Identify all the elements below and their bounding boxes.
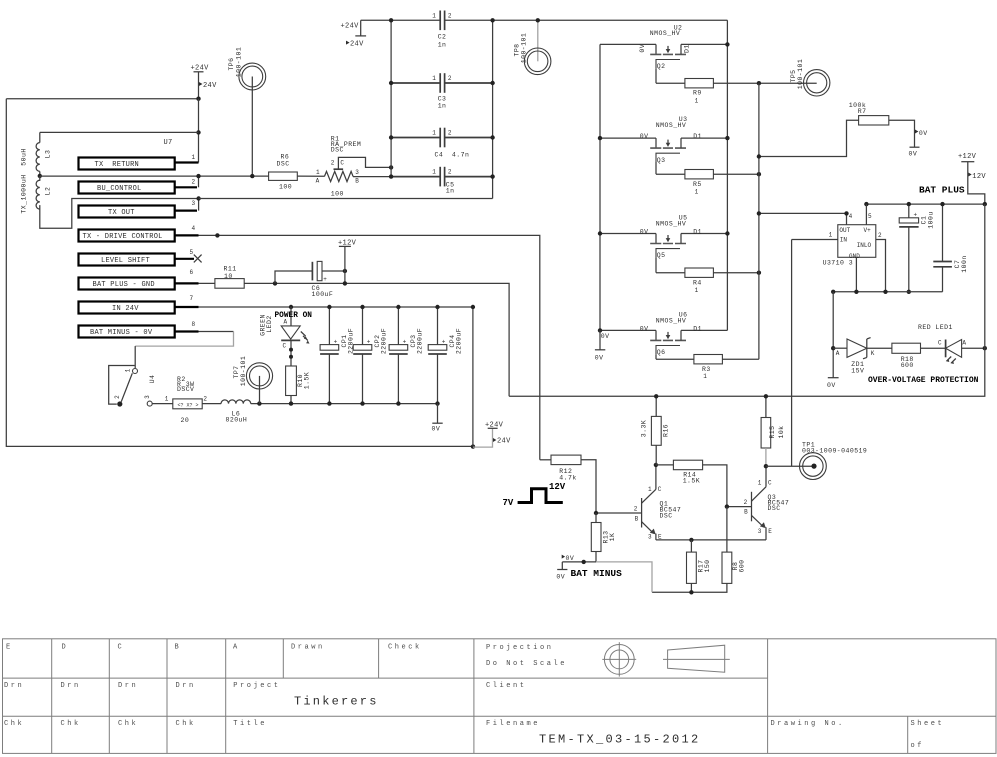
resistor R1 RA_PREM potentiometer: [316, 136, 392, 198]
svg-text:3: 3: [144, 395, 151, 399]
wire R9 output to TP5: [713, 82, 816, 84]
capacitor C5 1n: [391, 167, 493, 195]
svg-text:D1: D1: [693, 133, 702, 140]
svg-text:0V: 0V: [639, 44, 646, 53]
title block Chk row: [4, 720, 267, 728]
svg-text:2: 2: [744, 499, 748, 506]
svg-text:C7: C7: [954, 260, 961, 269]
testpoint TP1: [800, 442, 868, 480]
svg-text:A: A: [962, 340, 966, 347]
svg-text:R5: R5: [693, 181, 702, 188]
connector U7 pin box TX RETURN: [79, 154, 199, 169]
svg-text:10k: 10k: [778, 425, 785, 438]
transistor U5 NMOS_HV: [600, 215, 727, 273]
inductor L2 TX_1000uH: [21, 174, 52, 213]
svg-text:R15: R15: [769, 425, 776, 438]
svg-text:E: E: [6, 644, 13, 652]
node junction TX OUT pin3: [196, 196, 200, 200]
wire net +24V horizontal to left rail: [6, 98, 198, 100]
resistor R10 1.5K: [286, 366, 311, 404]
wire C6 left branch: [275, 271, 312, 283]
wire regulator IN pin1: [792, 239, 838, 241]
capacitor CP1 2200uF: [320, 307, 354, 404]
title block projection cell: [486, 644, 567, 728]
node junction bottom +24V return: [471, 444, 475, 448]
resistor R18 600: [892, 343, 921, 369]
capacitor C1 100u: [899, 204, 934, 292]
svg-text:OVER-VOLTAGE PROTECTION: OVER-VOLTAGE PROTECTION: [868, 376, 979, 385]
svg-text:6: 6: [190, 269, 194, 276]
svg-text:D1: D1: [693, 228, 702, 235]
wire regulator INLO pin2: [876, 240, 886, 292]
svg-text:Q3: Q3: [657, 157, 666, 164]
resistor R3 1: [694, 355, 723, 380]
capacitor CP3 2200uF: [389, 307, 423, 404]
capacitor C7 100n: [933, 204, 968, 292]
wire CP bank right rail down to +24V return: [472, 307, 474, 447]
svg-text:1: 1: [432, 130, 436, 137]
svg-text:100-101: 100-101: [521, 33, 528, 63]
svg-text:TX RETURN: TX RETURN: [95, 161, 140, 169]
resistor R11 10: [215, 265, 244, 288]
node junction pin5: [864, 202, 868, 206]
svg-text:24V: 24V: [203, 82, 217, 90]
svg-text:BAT MINUS - 0V: BAT MINUS - 0V: [90, 329, 153, 337]
svg-text:BAT PLUS: BAT PLUS: [919, 185, 965, 196]
svg-text:Filename: Filename: [486, 720, 540, 728]
node junction Q3 collector TP1: [764, 464, 768, 468]
wire switch to R2: [152, 403, 173, 405]
svg-text:Client: Client: [486, 682, 527, 690]
wire L6 to filter rail: [251, 403, 438, 405]
capacitor CP4 2200uF: [428, 307, 462, 404]
inductor L6 820uH: [221, 400, 251, 423]
wire C6 right to +12V: [322, 270, 345, 272]
svg-text:003-1009-040519: 003-1009-040519: [802, 448, 867, 455]
node junction L3 top: [196, 130, 200, 134]
wire TX DRIVE CONTROL net: [199, 235, 540, 459]
svg-text:DSC: DSC: [277, 160, 290, 167]
ground 0V at R7: [909, 130, 928, 158]
svg-text:A: A: [836, 350, 840, 357]
node junction U6 gate 0V: [598, 328, 602, 332]
resistor R7 100k: [849, 102, 889, 125]
svg-text:C2: C2: [438, 33, 447, 40]
svg-text:+: +: [403, 338, 407, 345]
node junction ZD1 anode: [831, 346, 835, 350]
svg-text:Drn: Drn: [118, 682, 138, 690]
svg-text:B: B: [635, 515, 639, 522]
svg-text:1: 1: [829, 232, 833, 239]
svg-text:R16: R16: [662, 424, 669, 437]
ground 0V under ZD1: [827, 378, 839, 389]
svg-text:1n: 1n: [446, 188, 455, 195]
svg-text:2: 2: [331, 160, 335, 167]
power +24V bottom symbol: [485, 421, 511, 445]
wire regulator GND pin3: [855, 257, 857, 292]
wire TP1 net: [766, 465, 814, 467]
svg-text:12V: 12V: [549, 482, 566, 492]
svg-text:Project: Project: [233, 682, 280, 690]
svg-text:NMOS_HV: NMOS_HV: [656, 220, 686, 227]
svg-text:2: 2: [203, 395, 207, 402]
svg-text:0V: 0V: [909, 151, 918, 158]
svg-text:C: C: [340, 160, 344, 167]
svg-text:Chk: Chk: [176, 720, 196, 728]
svg-text:Tinkerers: Tinkerers: [294, 695, 379, 709]
wire ground bus down to ZD1: [832, 292, 834, 378]
svg-text:A: A: [284, 319, 288, 326]
node junction BAT PLUS right end: [983, 202, 987, 206]
svg-text:C: C: [118, 644, 125, 652]
svg-text:DSC: DSC: [331, 147, 344, 154]
svg-text:B: B: [355, 178, 359, 185]
wire BAT MINUS net: [562, 561, 596, 563]
svg-text:D1: D1: [693, 325, 702, 332]
node junction C6 left: [273, 281, 277, 285]
wire bottom emitter ground row: [652, 583, 727, 592]
wire top rail +24V to drain bus: [361, 19, 441, 21]
title block frame: [3, 639, 997, 754]
wire R2 to L6: [202, 403, 221, 405]
diode LED2 GREEN power-on: [260, 307, 313, 366]
svg-text:TX OUT: TX OUT: [108, 209, 135, 217]
switch U4: [109, 366, 156, 407]
svg-text:0V: 0V: [556, 574, 565, 581]
svg-text:NMOS_HV: NMOS_HV: [656, 122, 686, 129]
node junction pin4 branch: [757, 211, 761, 215]
wire R1 to cap ladder: [353, 176, 391, 178]
wire R4 output to rail: [713, 272, 759, 274]
node junction R10 bottom: [289, 401, 293, 405]
svg-text:0V: 0V: [827, 382, 836, 389]
symbol projection cone: [663, 645, 730, 672]
svg-text:POWER ON: POWER ON: [275, 312, 313, 320]
svg-text:4: 4: [192, 225, 196, 232]
svg-text:Q6: Q6: [657, 349, 666, 356]
node junction R16 top: [654, 394, 658, 398]
svg-text:+12V: +12V: [958, 153, 977, 161]
node junction R17 bottom: [689, 590, 693, 594]
svg-text:24V: 24V: [350, 41, 364, 49]
connector U7 pin box TX - DRIVE CONTROL: [79, 225, 199, 241]
node junction R15 top: [764, 394, 768, 398]
svg-text:TP7: TP7: [233, 365, 240, 378]
svg-text:3: 3: [355, 169, 359, 176]
wire TX OUT net to cap ladder: [199, 198, 493, 200]
capacitor ladder left rail: [390, 20, 392, 176]
svg-text:4.7k: 4.7k: [559, 474, 576, 481]
wire base branch down to R8: [726, 507, 728, 552]
svg-text:12V: 12V: [972, 173, 986, 181]
connector U7 pin box IN 24V: [79, 295, 199, 313]
testpoint TP7: [233, 356, 273, 404]
svg-text:C: C: [938, 340, 942, 347]
wire emitter row: [656, 539, 766, 541]
svg-text:NMOS_HV: NMOS_HV: [656, 317, 686, 324]
svg-text:3: 3: [192, 200, 196, 207]
node junction R7 branch: [757, 154, 761, 158]
svg-text:1: 1: [695, 188, 699, 195]
testpoint TP6: [228, 47, 266, 176]
svg-text:1n: 1n: [438, 102, 447, 109]
svg-text:LEVEL SHIFT: LEVEL SHIFT: [101, 257, 150, 265]
symbol first-angle projection circle: [602, 642, 636, 676]
svg-text:C3: C3: [438, 95, 447, 102]
wire far right rail and return: [509, 204, 985, 396]
svg-text:100u: 100u: [927, 211, 934, 228]
svg-text:3: 3: [758, 528, 762, 535]
svg-text:L3: L3: [45, 150, 52, 159]
svg-text:+: +: [323, 276, 327, 283]
svg-text:TP6: TP6: [228, 57, 235, 70]
svg-text:C4 4.7n: C4 4.7n: [435, 151, 470, 158]
svg-text:Drawing No.: Drawing No.: [771, 720, 845, 728]
node junction U3 drain: [725, 136, 729, 140]
transistor U3 NMOS_HV: [600, 116, 727, 174]
node junction +24V at x198: [196, 97, 200, 101]
svg-text:1: 1: [165, 395, 169, 402]
svg-text:1: 1: [125, 368, 132, 372]
svg-text:Drn: Drn: [4, 682, 24, 690]
node junction TP7 stem: [257, 401, 261, 405]
svg-text:U7: U7: [164, 139, 173, 147]
svg-text:Drn: Drn: [61, 682, 81, 690]
node junction Q3 base branch: [725, 504, 729, 508]
node junction C6 right bottom: [343, 281, 347, 285]
node junction U5 gate: [598, 231, 602, 235]
svg-text:0V: 0V: [432, 425, 441, 432]
svg-text:2200uF: 2200uF: [456, 328, 463, 354]
wire LED1 to right rail: [962, 347, 985, 349]
svg-text:+: +: [367, 338, 371, 345]
svg-text:TX - DRIVE CONTROL: TX - DRIVE CONTROL: [83, 233, 163, 241]
capacitor C4 4.7n: [391, 128, 493, 159]
svg-text:7V: 7V: [503, 498, 514, 508]
title block revision header texts: [6, 644, 422, 652]
svg-text:0V: 0V: [640, 325, 649, 332]
svg-text:Chk: Chk: [118, 720, 138, 728]
resistor R8 600: [722, 552, 746, 583]
svg-text:Sheet: Sheet: [911, 720, 945, 728]
svg-text:TP8: TP8: [514, 43, 521, 56]
svg-text:BAT PLUS - GND: BAT PLUS - GND: [93, 281, 155, 289]
svg-text:Do Not Scale: Do Not Scale: [486, 660, 567, 668]
svg-text:TEM-TX_03-15-2012: TEM-TX_03-15-2012: [539, 733, 701, 747]
svg-text:15V: 15V: [851, 368, 864, 375]
capacitor C6 100uF: [312, 261, 334, 298]
svg-text:LED2: LED2: [266, 315, 273, 332]
svg-text:OUT: OUT: [839, 227, 850, 234]
node junction C tap on left rail: [389, 165, 393, 169]
power +12V symbol right: [958, 153, 986, 204]
wire BU_CONTROL net row: [40, 175, 269, 177]
svg-text:2: 2: [448, 130, 452, 137]
resistor R16 3.3K: [640, 396, 669, 465]
svg-text:2: 2: [114, 395, 121, 399]
svg-text:R7: R7: [858, 108, 867, 115]
svg-text:1: 1: [695, 98, 699, 105]
node junction pin4 corner: [844, 211, 848, 215]
title block drawing no / sheet: [771, 720, 945, 750]
svg-text:0V: 0V: [601, 333, 610, 340]
svg-text:100: 100: [279, 183, 292, 190]
svg-text:V+: V+: [864, 227, 872, 234]
svg-text:2: 2: [448, 12, 452, 19]
svg-text:5: 5: [868, 213, 872, 220]
node junction U2 drain: [725, 42, 729, 46]
resistor R4 1: [685, 268, 714, 294]
svg-text:TP5: TP5: [790, 69, 797, 82]
wire left boundary rail +24V return: [6, 99, 473, 447]
svg-text:2: 2: [192, 179, 196, 186]
wire R7 to 0V: [889, 120, 915, 147]
node junction on drive net: [215, 233, 219, 237]
connector U7 pin box LEVEL SHIFT: [79, 249, 202, 265]
svg-text:1: 1: [192, 154, 196, 161]
svg-text:U4: U4: [149, 375, 156, 384]
svg-text:8: 8: [192, 321, 196, 328]
resistor R5 1: [685, 170, 714, 196]
node junction right rail top: [757, 81, 761, 85]
node junction U5 drain: [725, 231, 729, 235]
svg-text:3: 3: [648, 534, 652, 541]
connector U7 pin box BU_CONTROL: [79, 176, 199, 193]
wire R5 output to rail: [713, 173, 759, 175]
svg-text:2200uF: 2200uF: [416, 328, 423, 354]
node junction rail top: [471, 305, 475, 309]
wire to inductor L3: [40, 131, 199, 133]
ground 0V at gate bus: [595, 330, 610, 361]
wire R11 to C6 branch and BAT PLUS-GND net: [244, 283, 509, 396]
svg-text:R4: R4: [693, 279, 702, 286]
wire right source rail: [758, 83, 760, 359]
svg-text:820uH: 820uH: [226, 416, 248, 423]
svg-text:NMOS_HV: NMOS_HV: [650, 30, 680, 37]
svg-text:DSC: DSC: [768, 505, 781, 512]
svg-text:100-101: 100-101: [797, 59, 804, 89]
resistor R13 1K: [591, 513, 616, 562]
connector U7 pin box TX OUT: [79, 199, 199, 218]
svg-text:1K: 1K: [609, 533, 616, 542]
svg-text:RED LED1: RED LED1: [918, 324, 953, 331]
wire pin6 to R11: [199, 282, 215, 284]
node junction U3 gate: [598, 136, 602, 140]
capacitor C2 1n: [432, 11, 452, 49]
node junction BAT MINUS: [582, 560, 586, 564]
svg-text:0V: 0V: [595, 355, 604, 362]
waveform 7V pulse symbol: [503, 489, 563, 508]
svg-text:TX_1000uH: TX_1000uH: [21, 174, 28, 213]
connector U7 pin box BAT MINUS - 0V: [79, 321, 199, 337]
node junction TP6 on pin2 net: [250, 174, 254, 178]
svg-text:100-101: 100-101: [240, 356, 247, 386]
testpoint TP5: [790, 59, 830, 96]
wire R18 to LED1: [921, 347, 946, 349]
svg-text:1.5K: 1.5K: [304, 372, 311, 389]
svg-text:DSCV: DSCV: [177, 386, 194, 393]
wire +24V vertical into U7 pin1: [198, 99, 200, 163]
svg-text:2200uF: 2200uF: [381, 328, 388, 354]
resistor R2 fuse style: [165, 376, 208, 424]
svg-text:1: 1: [316, 169, 320, 176]
resistor R9 1: [685, 79, 714, 105]
svg-text:20: 20: [181, 417, 190, 424]
svg-text:1: 1: [703, 373, 707, 380]
svg-text:C: C: [768, 480, 772, 487]
svg-text:BU_CONTROL: BU_CONTROL: [97, 185, 142, 193]
inductor L3 50uH: [21, 132, 52, 176]
svg-text:BAT MINUS: BAT MINUS: [571, 568, 623, 579]
node junction LED1 rail: [983, 346, 987, 350]
svg-text:600: 600: [901, 362, 914, 369]
testpoint TP8: [514, 20, 551, 74]
svg-text:Title: Title: [233, 720, 267, 728]
wire gray stub to +24V symbol bottom right: [473, 428, 493, 447]
svg-text:100uF: 100uF: [312, 291, 334, 298]
svg-text:B: B: [175, 644, 182, 652]
wire R14 to Q3 base: [703, 465, 752, 507]
svg-text:+: +: [442, 338, 446, 345]
svg-text:1: 1: [695, 287, 699, 294]
svg-text:4: 4: [849, 213, 853, 220]
svg-text:1.5K: 1.5K: [683, 478, 700, 485]
svg-text:0V: 0V: [566, 555, 575, 562]
svg-text:B: B: [744, 509, 748, 516]
svg-text:0V: 0V: [640, 133, 649, 140]
wire pin5 stub: [865, 204, 867, 225]
svg-text:Drn: Drn: [176, 682, 196, 690]
svg-text:+12V: +12V: [338, 239, 357, 247]
svg-text:D1: D1: [684, 44, 691, 53]
svg-text:DSC: DSC: [660, 513, 673, 520]
wire R3 output to rail bottom: [722, 358, 759, 360]
svg-text:1: 1: [758, 480, 762, 487]
wire IN 24V net: [199, 306, 473, 308]
wire rail to R7: [759, 120, 859, 156]
svg-text:U3710 3: U3710 3: [823, 260, 853, 267]
svg-text:Q2: Q2: [657, 63, 666, 70]
svg-text:D: D: [62, 644, 69, 652]
wire BAT PLUS rail: [866, 203, 984, 205]
wire pin8 to switch: [199, 331, 234, 333]
wire regulator IN vertical down to TP1 net: [791, 240, 793, 467]
power +12V symbol at C6: [338, 239, 357, 247]
node junction TP8 on top rail: [536, 18, 540, 22]
capacitor CP2 2200uF: [353, 307, 387, 404]
resistor R15 10k: [761, 396, 785, 466]
svg-text:+24V: +24V: [341, 23, 360, 31]
svg-text:1: 1: [648, 486, 652, 493]
svg-text:Chk: Chk: [4, 720, 24, 728]
svg-text:100n: 100n: [961, 255, 968, 272]
diode ZD1 15V zener: [833, 338, 875, 375]
power +24V symbol top middle: [341, 20, 367, 48]
svg-text:IN 24V: IN 24V: [112, 305, 139, 313]
svg-text:Chk: Chk: [61, 720, 81, 728]
svg-text:50uH: 50uH: [21, 148, 28, 165]
capacitor C3 1n: [391, 73, 493, 109]
svg-text:2: 2: [878, 232, 882, 239]
node junction pin2 net at x198: [196, 174, 200, 178]
wire L2 bottom to TX OUT net: [40, 199, 199, 229]
svg-text:R9: R9: [693, 90, 702, 97]
svg-text:E: E: [768, 528, 772, 535]
svg-text:Check: Check: [388, 644, 422, 652]
svg-text:7: 7: [190, 295, 194, 302]
regulator U37: [823, 213, 882, 266]
capacitor ladder right rail: [492, 20, 494, 198]
